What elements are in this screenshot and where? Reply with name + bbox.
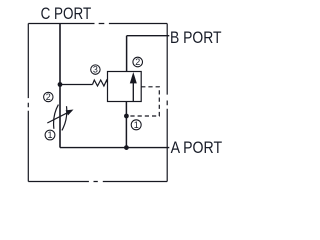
junction dot at pilot return [124,114,129,119]
wire: B port horizontal line [127,35,170,37]
port number circle 3 (spring vent) [91,65,100,74]
wire: C port drop line [59,24,61,148]
relief valve flow arrow [132,80,134,102]
needle valve adjustment arrow [47,113,67,123]
svg-text:C PORT: C PORT [41,4,92,23]
port number circle 2 (needle) [44,92,53,101]
cartridge boundary bottom edge (dash-dot) [28,181,167,183]
wire: spring lead line [60,84,93,86]
junction dot at spring tee [58,82,63,87]
svg-text:1: 1 [47,130,52,140]
wire: B port drop to valve box [126,36,128,72]
cartridge boundary left edge (dash-dot) [27,24,29,182]
wire: valve box bottom to A line [125,102,127,148]
cartridge boundary top edge (dash-dot) [28,23,167,25]
port number circle 1 (needle) [45,130,55,140]
needle valve right arc [62,106,67,130]
svg-text:2: 2 [135,57,140,67]
needle valve left arc [54,105,59,129]
junction dot at A line [124,145,129,150]
svg-text:1: 1 [134,120,139,130]
wire: A port horizontal line [60,147,169,149]
relief valve spring [93,80,108,86]
svg-text:A PORT: A PORT [171,139,223,157]
svg-text:3: 3 [93,65,98,75]
cartridge boundary right edge (dash-dot) [166,24,168,182]
svg-text:2: 2 [46,92,51,102]
svg-text:B PORT: B PORT [170,29,222,47]
port number circle 1 (valve) [131,120,141,130]
pilot line (dashed) [129,87,160,116]
relief valve U1 box [108,72,142,102]
port number circle 2 (valve) [133,57,143,67]
